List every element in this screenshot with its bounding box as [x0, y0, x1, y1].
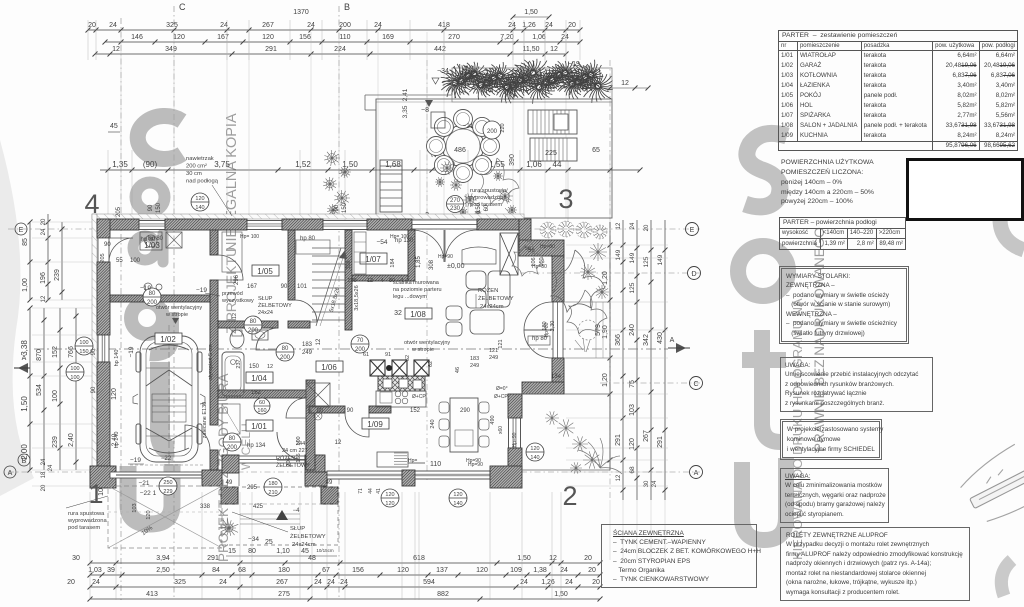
bay terrace steps [564, 301, 610, 303]
exterior wall top segment 2 [165, 219, 247, 230]
svg-text:224: 224 [334, 46, 346, 53]
stair wall vertical [345, 230, 352, 330]
svg-text:295: 295 [247, 485, 258, 491]
svg-text:150: 150 [342, 202, 348, 213]
top wall window 3 [323, 221, 367, 230]
section line A-A horizontal [34, 348, 668, 350]
svg-text:1/05: 1/05 [257, 267, 273, 276]
svg-text:180: 180 [268, 481, 277, 487]
bottom wall pier [402, 470, 415, 486]
svg-text:430: 430 [657, 332, 664, 344]
svg-text:24: 24 [219, 579, 227, 586]
svg-text:−19: −19 [128, 346, 135, 357]
svg-text:120: 120 [146, 510, 152, 519]
circled dims bottom windows [381, 489, 399, 507]
svg-text:24: 24 [92, 579, 100, 586]
top dim chain line 4 right [560, 87, 648, 89]
svg-text:110: 110 [430, 461, 441, 468]
svg-text:A: A [670, 337, 675, 344]
left dim lower line 4 [75, 308, 77, 470]
svg-text:267: 267 [276, 579, 288, 586]
circled dim 80 200 b [276, 343, 294, 361]
svg-text:146: 146 [131, 34, 143, 41]
svg-text:80: 80 [282, 346, 289, 352]
svg-text:239: 239 [54, 269, 61, 281]
svg-text:60: 60 [317, 408, 323, 414]
svg-text:20: 20 [41, 218, 47, 225]
bottom porch step dims [226, 555, 337, 557]
svg-text:B: B [22, 458, 27, 465]
svg-text:10/15cm: 10/15cm [316, 548, 334, 553]
svg-text:325: 325 [174, 579, 186, 586]
svg-text:−19: −19 [568, 61, 580, 68]
extra flower bay middle [589, 243, 607, 261]
watermark big letter left l [160, 362, 174, 451]
room label 1/04 [246, 372, 273, 383]
flower pots small terrace [440, 161, 454, 174]
svg-text:225: 225 [545, 150, 557, 157]
svg-text:425: 425 [253, 504, 264, 510]
svg-text:100: 100 [52, 390, 59, 402]
extension line mesh top [120, 32, 122, 218]
svg-text:68: 68 [629, 466, 636, 474]
left dim vertical line 3 [61, 222, 63, 300]
svg-text:1370: 1370 [293, 9, 309, 16]
svg-text:205: 205 [116, 206, 122, 217]
svg-text:490: 490 [490, 415, 496, 424]
grid row line D horizontal [520, 272, 700, 274]
svg-text:A: A [22, 355, 27, 362]
svg-text:390: 390 [509, 154, 516, 166]
svg-text:90: 90 [347, 408, 354, 414]
large leafy plant right middle [551, 250, 605, 312]
svg-text:140: 140 [453, 501, 462, 507]
svg-text:229: 229 [163, 489, 172, 495]
extension line mesh right [566, 244, 668, 246]
svg-text:870: 870 [36, 349, 43, 361]
svg-text:24: 24 [561, 34, 569, 41]
exterior wall top segment 1 [97, 219, 139, 230]
svg-text:1: 1 [88, 479, 103, 509]
svg-text:486: 486 [454, 147, 466, 154]
porch columns [221, 487, 238, 504]
svg-text:103: 103 [132, 503, 138, 512]
svg-text:100: 100 [130, 258, 141, 264]
svg-text:hp 130: hp 130 [395, 238, 414, 244]
box schiedel [780, 419, 882, 460]
table PARTER powierzchnia podlogi [779, 217, 906, 250]
svg-text:250: 250 [163, 480, 172, 486]
svg-text:C: C [179, 2, 186, 12]
svg-text:ŻELBETOWY: ŻELBETOWY [478, 295, 514, 302]
right dim vertical line 4 [650, 220, 652, 500]
sun lounger 1 [528, 110, 577, 134]
svg-text:150: 150 [156, 202, 162, 213]
door hol-garage opening [185, 425, 210, 450]
svg-text:30: 30 [72, 555, 80, 562]
svg-text:ŻELBETOWY: ŻELBETOWY [258, 302, 292, 309]
low terrace outline right [522, 393, 610, 395]
kitchen room label 1/09 [362, 418, 389, 429]
left grid circle E [15, 223, 27, 235]
porch pier right [305, 455, 325, 473]
extension line mesh bottom right column [609, 500, 611, 560]
circled dim 80 200 kotlownia [143, 288, 161, 306]
bottom wall corner right of porch [305, 472, 327, 486]
svg-text:24: 24 [545, 22, 553, 29]
svg-text:Ø+CP: Ø+CP [494, 394, 508, 400]
left circled window dims [75, 337, 93, 355]
svg-text:20: 20 [584, 555, 592, 562]
svg-text:275: 275 [278, 591, 290, 598]
svg-text:1,50: 1,50 [524, 9, 538, 16]
svg-text:24: 24 [652, 480, 658, 487]
svg-text:2: 2 [562, 481, 577, 511]
svg-text:67: 67 [322, 567, 330, 574]
svg-text:4: 4 [380, 278, 383, 284]
room 1/05 furniture [222, 232, 242, 272]
black rectangle frame top right [906, 158, 1024, 221]
svg-text:125: 125 [629, 282, 636, 293]
watermark big letter left u [128, 464, 172, 524]
bathroom 1/04 fixtures [230, 330, 244, 348]
garage room label 1/02 [155, 333, 182, 344]
svg-text:−34: −34 [437, 68, 449, 75]
svg-text:E: E [19, 227, 24, 234]
porch recess side lines [221, 455, 223, 470]
svg-text:100: 100 [79, 340, 88, 346]
circled dim 80 200 a [244, 316, 262, 334]
svg-text:20: 20 [588, 567, 596, 574]
svg-text:SŁUP: SŁUP [290, 526, 305, 532]
svg-text:240: 240 [430, 419, 436, 428]
svg-text:−19: −19 [130, 457, 141, 464]
svg-text:270: 270 [450, 198, 461, 204]
bottom left corner block [90, 466, 116, 488]
chimney block kitchen [378, 376, 425, 391]
salon side door opening [553, 302, 563, 358]
salon sofa set [446, 247, 510, 336]
svg-text:30: 30 [644, 480, 650, 487]
svg-text:Hp=80: Hp=80 [544, 322, 550, 337]
kotlownia floor wall [110, 295, 210, 302]
svg-text:legu ...dowym: legu ...dowym [393, 294, 427, 300]
svg-text:342: 342 [643, 334, 650, 346]
exterior wall left segment 2 [97, 262, 110, 335]
right dim vertical line 2 [622, 220, 624, 500]
svg-text:121: 121 [489, 348, 498, 354]
svg-text:152: 152 [410, 408, 421, 414]
svg-text:49: 49 [326, 480, 333, 486]
svg-text:882: 882 [437, 591, 449, 598]
svg-text:nad podłogą: nad podłogą [186, 179, 219, 185]
svg-text:137: 137 [436, 567, 448, 574]
svg-text:24: 24 [340, 579, 348, 586]
sun lounger 2 [530, 138, 577, 161]
svg-text:338: 338 [200, 504, 211, 510]
svg-text:291: 291 [207, 555, 219, 562]
svg-text:46: 46 [455, 367, 461, 373]
svg-text:−22 1: −22 1 [140, 490, 157, 497]
bottom dim row 1 [90, 562, 600, 564]
svg-text:75: 75 [629, 380, 636, 388]
top wall window 2 [247, 221, 282, 230]
svg-text:12: 12 [41, 295, 47, 302]
svg-text:1/06: 1/06 [321, 363, 337, 372]
stairs [312, 247, 345, 249]
svg-text:4: 4 [84, 189, 99, 219]
circled dim 70 200 [351, 335, 369, 353]
grid line terrace right [609, 60, 611, 500]
watermark paper shadow left edge [0, 140, 34, 496]
top extension lines [87, 20, 89, 60]
svg-text:5: 5 [308, 408, 311, 414]
svg-text:x60: x60 [498, 426, 504, 434]
svg-text:325: 325 [166, 22, 178, 29]
extension line mesh left [32, 221, 96, 223]
svg-text:hp 134: hp 134 [247, 443, 266, 449]
svg-text:413: 413 [146, 591, 158, 598]
bottom window large 2 [415, 471, 490, 479]
svg-text:239: 239 [52, 436, 59, 448]
svg-text:71: 71 [358, 488, 364, 494]
svg-text:1,03: 1,03 [88, 567, 102, 574]
svg-text:24: 24 [508, 22, 516, 29]
box rolety aluprof [780, 527, 970, 601]
svg-text:100: 100 [347, 278, 356, 284]
right dim vertical line 3 [636, 220, 638, 500]
svg-text:12: 12 [616, 222, 622, 229]
svg-text:169: 169 [382, 34, 394, 41]
box wymiary stolarki [779, 266, 909, 344]
svg-text:3,35: 3,35 [402, 105, 409, 118]
svg-text:90: 90 [334, 204, 340, 211]
svg-text:rura spustowa: rura spustowa [68, 511, 105, 517]
svg-text:244: 244 [296, 441, 305, 447]
trellis pergola left of terrace [380, 160, 402, 212]
svg-text:120: 120 [195, 196, 204, 202]
svg-text:24: 24 [48, 464, 54, 471]
svg-text:wyprowadzona: wyprowadzona [467, 195, 507, 201]
svg-text:A: A [8, 470, 13, 477]
svg-text:1,00: 1,00 [22, 278, 29, 292]
svg-text:534: 534 [36, 384, 43, 396]
svg-text:C: C [693, 381, 698, 388]
svg-text:149: 149 [657, 254, 664, 265]
left section marker A [18, 363, 28, 373]
mid dim chain line [100, 169, 640, 171]
salon right pier lower [552, 358, 564, 394]
svg-text:Hp=90: Hp=90 [468, 462, 483, 468]
svg-text:12: 12 [232, 313, 238, 319]
svg-text:−8: −8 [421, 107, 429, 114]
left door opening 1/03 [98, 238, 109, 262]
circled dim 200 terrace door [483, 121, 501, 139]
text powierzchnia uzytkowa [781, 158, 911, 207]
bay circled 120 140 [526, 443, 544, 461]
palm sketch bay bottom [578, 438, 622, 474]
insulation outline left [92, 214, 97, 488]
svg-text:pod tarasem: pod tarasem [68, 525, 100, 531]
leafy plant sketch small terrace [479, 158, 519, 204]
svg-text:84: 84 [212, 567, 220, 574]
svg-text:(90): (90) [143, 160, 158, 169]
svg-text:308: 308 [429, 259, 435, 270]
right dim vertical line 5 [664, 220, 666, 500]
svg-text:120: 120 [111, 388, 118, 400]
wall 1/01 kitchen vertical [306, 380, 315, 470]
svg-text:12: 12 [335, 440, 342, 446]
svg-text:3,75: 3,75 [214, 160, 230, 169]
svg-text:ŻELBETOWY: ŻELBETOWY [290, 533, 326, 540]
svg-text:196: 196 [40, 272, 47, 284]
svg-text:237: 237 [236, 359, 242, 368]
svg-text:30 cm: 30 cm [186, 171, 202, 177]
bottom window large 1 [327, 471, 402, 479]
svg-text:1,26: 1,26 [541, 579, 555, 586]
svg-text:24x24: 24x24 [258, 310, 273, 316]
terrace hedge box top [452, 68, 612, 102]
watermark big letter right u [742, 458, 786, 540]
svg-text:20: 20 [568, 22, 576, 29]
svg-text:3,38: 3,38 [20, 340, 29, 356]
grid row line E horizontal [8, 228, 700, 230]
hol room label 1/06 [316, 361, 343, 372]
svg-text:120: 120 [173, 34, 185, 41]
svg-text:NIELEGALNA KOPIA: NIELEGALNA KOPIA [224, 113, 240, 252]
salon corner window column [500, 233, 518, 275]
right grid circle A [690, 466, 703, 479]
svg-text:200: 200 [487, 129, 498, 135]
svg-text:100: 100 [70, 375, 79, 381]
svg-text:44: 44 [368, 488, 374, 494]
svg-text:366: 366 [615, 334, 622, 346]
svg-text:110: 110 [339, 34, 350, 41]
wall below room 1/05 [218, 321, 278, 328]
svg-text:90: 90 [91, 386, 97, 393]
floor drain symbols kotlownia [144, 283, 152, 291]
box uwaga instalacje [780, 357, 933, 412]
svg-text:3,94: 3,94 [156, 555, 170, 562]
svg-text:ścianka murowana: ścianka murowana [393, 280, 440, 286]
svg-text:wyprowadzona: wyprowadzona [67, 518, 107, 524]
svg-text:1,85: 1,85 [416, 256, 422, 268]
vent boxes with X [370, 360, 385, 376]
box sciana zewnetrzna [601, 524, 757, 588]
svg-text:7,20: 7,20 [500, 34, 514, 41]
terrace door opening top [412, 220, 477, 229]
circled dim 60 160 [254, 398, 270, 414]
svg-text:24: 24 [41, 458, 47, 465]
shrub row below top wall right [540, 222, 556, 238]
svg-text:205: 205 [100, 253, 106, 262]
bottom wall segment porch left [202, 470, 222, 486]
svg-text:2,30: 2,30 [550, 321, 556, 332]
svg-text:24: 24 [374, 22, 382, 29]
left dim vertical line 1 [29, 222, 31, 300]
svg-text:184: 184 [390, 258, 396, 267]
svg-text:Hp= 100: Hp= 100 [240, 234, 259, 240]
terrace door leaves arcs [412, 230, 444, 262]
flower bush right upper [512, 240, 544, 276]
svg-text:156: 156 [352, 567, 364, 574]
svg-text:291: 291 [265, 46, 277, 53]
grid line B vertical [338, 6, 340, 600]
svg-text:200: 200 [248, 328, 259, 334]
svg-text:291: 291 [657, 436, 664, 448]
grid line D vertical [120, 18, 122, 600]
svg-text:200: 200 [280, 355, 291, 361]
svg-text:49: 49 [226, 480, 233, 486]
svg-text:hp 140: hp 140 [114, 350, 120, 367]
svg-text:150: 150 [79, 349, 88, 355]
mid extension lines [107, 150, 109, 222]
right section marker A [676, 343, 686, 353]
svg-text:210: 210 [268, 490, 277, 496]
svg-text:80: 80 [229, 436, 236, 442]
exterior wall top segment 4 [367, 219, 412, 230]
spizarka right wall [408, 230, 415, 281]
svg-text:200: 200 [339, 22, 351, 29]
watermark arc bottom right edge [1001, 560, 1012, 596]
svg-text:106: 106 [531, 257, 537, 266]
svg-text:55: 55 [116, 258, 123, 264]
svg-text:109: 109 [510, 567, 522, 574]
svg-text:183: 183 [302, 342, 313, 348]
circled dim 120 140 top [191, 193, 209, 211]
svg-text:60: 60 [484, 204, 490, 211]
svg-text:220: 220 [500, 123, 506, 132]
svg-text:39: 39 [107, 567, 115, 574]
svg-text:120: 120 [385, 501, 394, 507]
svg-text:1/01: 1/01 [251, 422, 267, 431]
svg-text:24: 24 [307, 22, 315, 29]
svg-text:24: 24 [520, 579, 528, 586]
svg-text:11,50: 11,50 [523, 46, 540, 53]
circled dim 80 200 c [223, 433, 241, 451]
svg-text:1,68: 1,68 [385, 160, 401, 169]
svg-text:rura spustowa: rura spustowa [470, 188, 507, 194]
svg-text:103: 103 [629, 404, 636, 416]
svg-text:291: 291 [615, 434, 622, 446]
kitchen counter with stove [376, 391, 426, 407]
exterior wall top segment 5 [477, 219, 519, 230]
svg-text:1/09: 1/09 [367, 420, 383, 429]
kitchen island block [377, 452, 408, 467]
hol-kitchen wall [309, 406, 345, 413]
terrace outline top right [376, 99, 612, 218]
svg-text:3x18,5x26: 3x18,5x26 [354, 285, 360, 310]
exterior wall left segment 1 [97, 219, 110, 238]
garage door opening [110, 472, 202, 478]
svg-text:12: 12 [112, 46, 120, 53]
svg-text:90: 90 [148, 204, 154, 211]
svg-text:134: 134 [551, 374, 562, 380]
right dim vertical line 1 [609, 222, 611, 470]
exterior wall top segment 3 [282, 219, 323, 230]
svg-text:183: 183 [470, 356, 479, 362]
svg-text:12: 12 [316, 338, 322, 345]
pencil sketch bottom right [954, 433, 1024, 528]
flower cluster bay bottom [545, 411, 559, 424]
svg-text:45: 45 [110, 123, 118, 130]
watermark big letter right o [738, 246, 788, 296]
watermark big letter left C [138, 116, 182, 159]
porch step lines [240, 513, 300, 515]
svg-text:249: 249 [302, 350, 313, 356]
watermark arc top right edge [1000, 190, 1024, 250]
svg-text:−34: −34 [248, 536, 259, 543]
